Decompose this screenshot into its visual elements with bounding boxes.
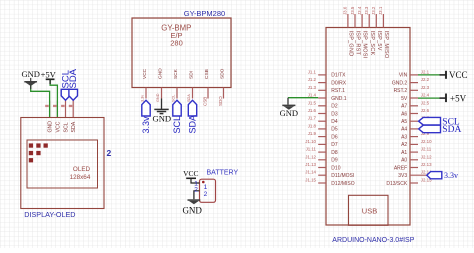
svg-text:GND.2: GND.2 xyxy=(392,80,408,86)
svg-text:VIN: VIN xyxy=(399,73,408,79)
svg-text:J1.4: J1.4 xyxy=(308,93,317,98)
svg-text:D11/MOSI: D11/MOSI xyxy=(331,173,354,179)
svg-text:VCC: VCC xyxy=(449,70,468,80)
svg-text:2: 2 xyxy=(107,148,112,158)
svg-text:GND: GND xyxy=(182,205,202,215)
svg-text:SDI: SDI xyxy=(189,71,195,79)
svg-text:SCL: SCL xyxy=(172,95,176,102)
svg-text:J2.5: J2.5 xyxy=(421,100,430,105)
svg-text:2: 2 xyxy=(204,191,208,198)
svg-text:SDA: SDA xyxy=(442,125,461,135)
svg-text:ISP_GND: ISP_GND xyxy=(348,31,354,57)
svg-text:CSB: CSB xyxy=(202,97,207,106)
svg-text:D5: D5 xyxy=(331,127,338,133)
svg-text:J1.6: J1.6 xyxy=(308,108,317,113)
svg-text:SDO: SDO xyxy=(218,96,223,106)
svg-text:D2: D2 xyxy=(331,104,338,110)
svg-text:ARDUINO-NANO-3.0#ISP: ARDUINO-NANO-3.0#ISP xyxy=(332,237,414,244)
svg-text:3.3v: 3.3v xyxy=(444,171,458,180)
svg-text:OLED: OLED xyxy=(73,166,91,173)
svg-text:D13/SCK: D13/SCK xyxy=(386,181,408,187)
svg-text:J2.12: J2.12 xyxy=(421,154,432,159)
svg-text:VCC: VCC xyxy=(55,121,61,132)
svg-text:J1.9: J1.9 xyxy=(308,131,317,136)
svg-text:J1.10: J1.10 xyxy=(305,139,316,144)
svg-text:A1: A1 xyxy=(401,150,407,156)
svg-text:A3: A3 xyxy=(401,134,407,140)
svg-text:J3.4: J3.4 xyxy=(357,6,362,15)
svg-text:128x64: 128x64 xyxy=(70,174,91,181)
svg-text:J3.1: J3.1 xyxy=(378,6,383,15)
svg-text:J1.7: J1.7 xyxy=(308,116,317,121)
svg-text:A6: A6 xyxy=(401,111,407,117)
svg-text:J2.10: J2.10 xyxy=(421,139,432,144)
svg-text:J2.4: J2.4 xyxy=(421,93,430,98)
svg-text:J1.13: J1.13 xyxy=(305,162,316,167)
svg-text:J3.5: J3.5 xyxy=(350,6,355,15)
svg-text:D1/TX: D1/TX xyxy=(331,73,346,79)
svg-text:ISP_MISO: ISP_MISO xyxy=(383,31,389,59)
svg-text:SDA: SDA xyxy=(187,94,191,102)
svg-text:J2.1: J2.1 xyxy=(421,69,430,74)
svg-text:SCK: SCK xyxy=(173,68,179,79)
svg-text:J1.5: J1.5 xyxy=(308,100,317,105)
svg-text:J1.15: J1.15 xyxy=(305,178,316,183)
svg-text:AREF: AREF xyxy=(394,165,407,171)
svg-text:280: 280 xyxy=(170,39,183,48)
svg-text:ISP_RST: ISP_RST xyxy=(355,31,361,56)
svg-text:GND: GND xyxy=(280,108,298,118)
svg-text:D6: D6 xyxy=(331,134,338,140)
svg-text:SDA: SDA xyxy=(68,68,79,88)
svg-text:J1.11: J1.11 xyxy=(306,147,317,152)
svg-text:J3.2: J3.2 xyxy=(371,6,376,15)
svg-text:J2.11: J2.11 xyxy=(421,147,432,152)
svg-text:J1.3: J1.3 xyxy=(308,85,317,90)
svg-text:ISP_5V: ISP_5V xyxy=(376,31,382,51)
svg-text:J1.8: J1.8 xyxy=(308,123,317,128)
svg-text:3.3v: 3.3v xyxy=(141,95,145,102)
svg-text:J1.14: J1.14 xyxy=(305,170,316,175)
svg-text:3V3: 3V3 xyxy=(398,173,407,179)
svg-text:D10: D10 xyxy=(331,165,340,171)
svg-text:J2.13: J2.13 xyxy=(421,162,432,167)
svg-text:2: 2 xyxy=(194,187,198,194)
svg-text:A7: A7 xyxy=(401,104,407,110)
svg-text:A2: A2 xyxy=(401,142,407,148)
svg-text:RST.2: RST.2 xyxy=(394,88,408,94)
svg-text:D4: D4 xyxy=(331,119,338,125)
svg-text:VCC: VCC xyxy=(183,169,198,178)
svg-text:D8: D8 xyxy=(331,150,338,156)
svg-text:A5: A5 xyxy=(401,119,407,125)
svg-text:+5V: +5V xyxy=(41,69,57,79)
svg-text:SDA: SDA xyxy=(188,115,198,134)
svg-text:+5V: +5V xyxy=(450,94,467,104)
svg-text:GND: GND xyxy=(156,93,160,102)
svg-text:D12/MISO: D12/MISO xyxy=(331,181,354,187)
svg-text:SCL: SCL xyxy=(172,116,182,134)
svg-text:SDA: SDA xyxy=(71,121,77,132)
svg-text:GND: GND xyxy=(152,114,171,124)
svg-text:SDO: SDO xyxy=(220,68,226,79)
svg-text:GND.1: GND.1 xyxy=(331,96,347,102)
svg-text:GND: GND xyxy=(158,68,164,79)
svg-text:3.3v: 3.3v xyxy=(141,116,151,134)
svg-text:CSB: CSB xyxy=(204,69,210,79)
svg-text:D7: D7 xyxy=(331,142,338,148)
svg-text:VCC: VCC xyxy=(142,68,148,79)
svg-text:ISP_MOSI: ISP_MOSI xyxy=(362,31,368,59)
svg-text:USB: USB xyxy=(362,207,377,216)
svg-text:J3.6: J3.6 xyxy=(343,6,348,15)
svg-text:D9: D9 xyxy=(331,158,338,164)
svg-text:GY-BPM280: GY-BPM280 xyxy=(184,9,225,18)
svg-text:DISPLAY-OLED: DISPLAY-OLED xyxy=(24,210,75,219)
svg-text:A0: A0 xyxy=(401,158,407,164)
svg-text:RST.1: RST.1 xyxy=(331,88,345,94)
svg-text:GND: GND xyxy=(48,121,54,133)
svg-text:5V: 5V xyxy=(401,96,408,102)
svg-text:BATTERY: BATTERY xyxy=(207,170,239,177)
svg-text:J3.3: J3.3 xyxy=(364,6,369,15)
svg-text:J2.2: J2.2 xyxy=(421,77,430,82)
svg-text:J1.2: J1.2 xyxy=(308,77,317,82)
svg-text:J2.6: J2.6 xyxy=(421,108,430,113)
svg-text:A4: A4 xyxy=(401,127,407,133)
svg-text:J1.1: J1.1 xyxy=(308,69,317,74)
svg-text:D0/RX: D0/RX xyxy=(331,80,346,86)
svg-text:SCL: SCL xyxy=(64,122,70,132)
svg-text:ISP_SCK: ISP_SCK xyxy=(369,31,375,56)
svg-text:J1.12: J1.12 xyxy=(305,154,316,159)
svg-text:D3: D3 xyxy=(331,111,338,117)
svg-text:GND: GND xyxy=(21,69,39,79)
svg-text:J2.3: J2.3 xyxy=(421,85,430,90)
